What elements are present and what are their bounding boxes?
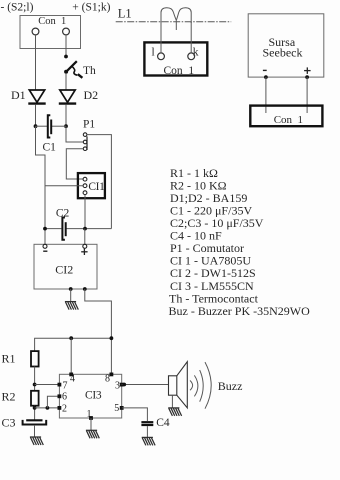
svg-text:Th: Th	[83, 65, 96, 77]
svg-text:C3: C3	[2, 416, 16, 430]
svg-text:Con 1: Con 1	[274, 114, 303, 126]
svg-text:D1: D1	[11, 88, 26, 102]
svg-text:l: l	[152, 46, 155, 58]
svg-text:k: k	[193, 46, 199, 58]
svg-text:CI3: CI3	[85, 390, 102, 402]
svg-text:R2: R2	[2, 390, 16, 404]
svg-text:Buz - Buzzer PK -35N29WO: Buz - Buzzer PK -35N29WO	[169, 304, 311, 318]
svg-text:6: 6	[62, 392, 67, 403]
svg-text:Con 1: Con 1	[164, 65, 195, 77]
svg-text:Buzz: Buzz	[218, 379, 243, 393]
svg-text:R1: R1	[2, 352, 16, 366]
svg-text:- (S2;l): - (S2;l)	[1, 2, 34, 14]
svg-text:CI1: CI1	[88, 181, 105, 193]
svg-text:Con 1: Con 1	[38, 16, 66, 27]
svg-text:7: 7	[63, 380, 68, 391]
svg-text:+ (S1;k): + (S1;k)	[72, 2, 110, 14]
svg-text:C4: C4	[156, 417, 170, 429]
svg-text:Seebeck: Seebeck	[263, 46, 303, 60]
svg-text:5: 5	[114, 403, 119, 414]
svg-text:3: 3	[115, 380, 120, 391]
svg-text:P1: P1	[83, 119, 95, 131]
svg-text:C1: C1	[43, 142, 57, 154]
svg-text:CI2: CI2	[55, 263, 73, 277]
svg-text:D2: D2	[84, 88, 99, 102]
svg-text:2: 2	[62, 403, 67, 414]
svg-text:8: 8	[105, 374, 110, 385]
svg-text:L1: L1	[118, 6, 132, 20]
